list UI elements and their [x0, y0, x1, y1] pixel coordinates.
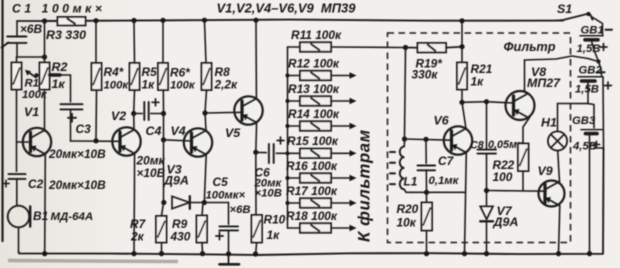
- label GB2 plus: [605, 82, 612, 89]
- label V3: [167, 163, 182, 177]
- transistor V5: [234, 96, 262, 124]
- svg-text:GB1: GB1: [581, 25, 604, 37]
- svg-text:МП27: МП27: [527, 76, 561, 90]
- label GB1 plus: [600, 44, 607, 51]
- svg-text:L1: L1: [404, 175, 418, 189]
- svg-text:R4*: R4*: [104, 65, 125, 79]
- inductor L1: [400, 139, 413, 192]
- label GB1: [581, 25, 604, 37]
- svg-text:К фильтрам: К фильтрам: [355, 129, 374, 242]
- svg-text:×10В: ×10В: [137, 166, 166, 180]
- wire top rail to C1: [17, 20, 45, 22]
- label GB3: [572, 115, 596, 127]
- svg-text:V1: V1: [24, 105, 39, 119]
- label К фильтрам: [355, 129, 374, 242]
- svg-text:1,5В: 1,5В: [577, 43, 601, 55]
- wire V9 emitter down: [559, 206, 560, 254]
- resistor R5: [130, 21, 140, 114]
- wire battery right rail: [594, 77, 604, 148]
- wire V5 emitter down: [253, 123, 258, 215]
- label Фильтр: [504, 39, 556, 54]
- label V5: [225, 126, 241, 140]
- label R4: [104, 65, 130, 92]
- svg-text:R20: R20: [397, 202, 419, 216]
- svg-text:C5: C5: [213, 175, 229, 189]
- wire resistor bank left rail: [285, 47, 289, 228]
- wire V1 base: [17, 141, 31, 143]
- label C6: [254, 166, 283, 200]
- svg-text:2к: 2к: [130, 230, 145, 244]
- wire V4 base: [161, 114, 192, 143]
- label R2: [52, 60, 68, 91]
- wire GB3 to bottom rail: [589, 135, 591, 254]
- svg-text:С1 100мк×: С1 100мк×: [12, 2, 106, 16]
- wire V6 collector: [462, 102, 466, 128]
- svg-text:R13 100к: R13 100к: [288, 82, 340, 96]
- svg-text:R15 100к: R15 100к: [287, 134, 339, 148]
- wire rail to R2 node: [44, 21, 46, 57]
- label C7: [438, 154, 455, 168]
- transistor V6: [444, 126, 472, 154]
- svg-text:100к: 100к: [170, 80, 196, 92]
- svg-text:20мк×10В: 20мк×10В: [48, 147, 106, 161]
- svg-text:С7: С7: [438, 154, 455, 168]
- label V7: [497, 204, 513, 218]
- wire V6 emitter down: [465, 153, 467, 254]
- svg-text:S1: S1: [557, 2, 572, 16]
- transistor V1: [23, 128, 51, 156]
- svg-text:R18 100к: R18 100к: [286, 209, 338, 223]
- svg-text:GB2: GB2: [579, 65, 603, 77]
- label R20: [397, 202, 419, 230]
- label C5 plus: [216, 232, 223, 239]
- label GB2 value: [575, 84, 599, 96]
- svg-text:GB3: GB3: [572, 115, 596, 127]
- svg-text:100мк×: 100мк×: [206, 189, 246, 201]
- wire C8/V7 node to V9 base: [487, 190, 547, 193]
- resistor R7: [156, 203, 167, 254]
- label V2: [111, 109, 126, 123]
- wire GB2 to H1 tap and GB3: [558, 83, 595, 128]
- label C3: [76, 122, 92, 136]
- wire V2 collector: [133, 114, 135, 129]
- wire V8 collector up: [525, 60, 530, 94]
- wire V6 collector node to V8 base: [462, 99, 513, 104]
- svg-text:Д9А: Д9А: [493, 215, 519, 229]
- svg-text:R3 330: R3 330: [46, 28, 86, 42]
- svg-text:100к: 100к: [104, 80, 130, 92]
- svg-text:1к: 1к: [52, 77, 66, 91]
- wire R19 node down to V6 base: [402, 48, 452, 142]
- label R22: [493, 158, 515, 184]
- svg-text:V5: V5: [225, 126, 241, 140]
- resistor R20: [422, 192, 433, 253]
- resistor R14: [288, 107, 357, 131]
- svg-text:20мк×10В: 20мк×10В: [48, 178, 106, 192]
- label C4 value: [136, 154, 166, 181]
- capacitor C5: [219, 203, 238, 254]
- lamp H1: [548, 104, 567, 151]
- resistor R15: [287, 134, 357, 158]
- label C5: [213, 175, 229, 189]
- resistor R1: [12, 57, 22, 142]
- label GB2 minus: [599, 71, 605, 73]
- resistor R18: [286, 209, 357, 233]
- wire V5 collector: [255, 21, 257, 98]
- capacitor C4: [144, 102, 166, 120]
- svg-text:R10: R10: [264, 213, 286, 227]
- label V1: [24, 105, 39, 119]
- capacitor C8: [478, 102, 496, 191]
- resistor R9: [197, 203, 208, 254]
- svg-text:1к: 1к: [142, 78, 156, 92]
- label H1: [541, 116, 557, 130]
- wire V4 collector: [202, 110, 207, 129]
- svg-text:×10В: ×10В: [255, 188, 282, 200]
- node top rail junction dots: [42, 18, 465, 24]
- svg-text:Н1: Н1: [541, 116, 557, 130]
- wire C1/R1/R2 node: [17, 54, 48, 59]
- svg-text:С2: С2: [28, 177, 44, 191]
- label R21: [471, 62, 493, 89]
- label C6 plus: [277, 137, 284, 144]
- transistor V4: [184, 128, 212, 156]
- svg-text:4,5В: 4,5В: [572, 141, 597, 153]
- capacitor C7: [418, 139, 436, 192]
- diode V7: [480, 188, 493, 254]
- capacitor C3: [61, 104, 83, 141]
- resistor R10: [252, 215, 263, 254]
- label C1 voltage: [20, 22, 43, 36]
- wire C4 left node: [131, 111, 142, 116]
- battery GB1: [580, 36, 603, 40]
- label R6: [170, 66, 196, 92]
- label C4: [146, 124, 162, 138]
- label V9: [538, 164, 553, 178]
- resistor R16: [286, 159, 357, 183]
- inductor L1 core dashes: [390, 152, 395, 184]
- svg-text:100: 100: [493, 170, 513, 184]
- label V8 type: [527, 76, 561, 90]
- label C2: [28, 177, 44, 191]
- wire bottom ground rail: [19, 148, 604, 255]
- wire V4 collector to V5 base: [205, 111, 242, 114]
- ground: [220, 254, 240, 264]
- label GB3 plus: [593, 141, 599, 147]
- label V4: [171, 124, 186, 138]
- filter dashed box: [388, 33, 571, 243]
- wire tank bottom: [412, 190, 465, 195]
- label R10: [264, 213, 286, 243]
- resistor R8: [202, 21, 212, 113]
- label GB3 value: [572, 141, 597, 153]
- resistor R19: [403, 43, 462, 52]
- resistor R13: [288, 82, 357, 106]
- label V8: [531, 65, 546, 79]
- battery GB2: [578, 77, 603, 81]
- svg-text:R17 100к: R17 100к: [286, 184, 338, 198]
- capacitor C6: [256, 144, 288, 163]
- svg-text:330к: 330к: [412, 68, 439, 82]
- wire C3 to V2 base: [71, 138, 121, 143]
- wire V1 emitter down: [44, 154, 47, 253]
- resistor R3: [58, 17, 86, 25]
- label B1: [33, 209, 48, 223]
- label R9: [170, 217, 191, 244]
- frame bottom smudge: [8, 261, 178, 262]
- wire V4 emitter down: [204, 155, 206, 203]
- svg-text:R14 100к: R14 100к: [288, 107, 340, 121]
- label R5: [142, 65, 158, 92]
- capacitor C1: [2, 21, 27, 57]
- svg-text:1,5В: 1,5В: [575, 84, 599, 96]
- label V6: [434, 114, 449, 128]
- node bottom rail junction dots: [42, 251, 592, 257]
- label C2 plus: [3, 180, 9, 186]
- resistor R4: [92, 21, 102, 141]
- svg-text:МД-64А: МД-64А: [51, 211, 94, 223]
- wire GB1 to GB2 tap: [592, 41, 602, 76]
- svg-text:R2: R2: [52, 60, 68, 74]
- svg-text:V2: V2: [111, 109, 126, 123]
- label transistor types V1,V2,V4-V6,V9 МП39: [217, 0, 357, 15]
- resistor R6: [158, 21, 168, 114]
- svg-text:1к: 1к: [267, 228, 281, 242]
- svg-text:R12 100к: R12 100к: [288, 56, 340, 70]
- label S1: [557, 2, 572, 16]
- switch S1: [556, 12, 603, 35]
- resistor R22: [518, 144, 529, 191]
- label GB1 minus: [606, 29, 613, 31]
- svg-text:Д9А: Д9А: [163, 174, 189, 188]
- resistor R11: [288, 28, 406, 52]
- label C7 value: [429, 175, 460, 187]
- svg-text:С3: С3: [76, 122, 92, 136]
- svg-text:V6: V6: [434, 114, 449, 128]
- label C3 plus: [68, 114, 76, 122]
- resistor R2: [40, 57, 50, 131]
- svg-text:V9: V9: [538, 164, 553, 178]
- svg-text:V4: V4: [171, 124, 186, 138]
- label C4 plus: [152, 99, 159, 106]
- svg-text:0,1мк: 0,1мк: [429, 175, 460, 187]
- capacitor C2: [9, 142, 26, 206]
- wire R2 to C3: [50, 75, 71, 102]
- wire V9 collector to H1: [558, 150, 560, 182]
- label C8: [470, 139, 523, 152]
- label C2 value: [48, 178, 106, 192]
- label R1: [22, 78, 48, 102]
- svg-text:R1: R1: [25, 78, 39, 90]
- transistor V8: [506, 91, 535, 120]
- transistor V2: [112, 127, 140, 155]
- label C3 value: [48, 147, 106, 161]
- resistor R12: [288, 56, 357, 80]
- label R19: [412, 57, 444, 82]
- wire V8 emitter to R22: [523, 118, 530, 144]
- svg-text:430: 430: [170, 230, 191, 244]
- label R3: [46, 28, 86, 42]
- label V7 type: [493, 215, 519, 229]
- label C5 value: [206, 189, 251, 216]
- label B1 type: [51, 211, 94, 223]
- label V3 type: [163, 174, 189, 188]
- microphone B1: [8, 206, 31, 252]
- svg-text:2,2к: 2,2к: [214, 78, 239, 92]
- svg-text:В1: В1: [33, 209, 48, 223]
- wire top supply rail: [45, 20, 564, 21]
- label R8: [214, 65, 239, 92]
- svg-text:R11 100к: R11 100к: [291, 28, 342, 42]
- svg-text:×6В: ×6В: [20, 22, 43, 36]
- frame left border line: [1, 0, 3, 241]
- resistor R21: [457, 21, 467, 105]
- diode V3: [161, 140, 228, 209]
- svg-text:10к: 10к: [397, 216, 417, 230]
- svg-text:R16 100к: R16 100к: [286, 159, 338, 173]
- label R7: [130, 217, 147, 244]
- wire V2 emitter down: [133, 154, 136, 254]
- label L1: [404, 175, 418, 189]
- label GB2: [579, 65, 603, 77]
- label C1 value: [12, 2, 106, 16]
- svg-text:С4: С4: [146, 124, 162, 138]
- svg-text:×6В: ×6В: [230, 204, 251, 216]
- wire V8 collector to battery tap: [525, 56, 599, 62]
- resistor R17: [286, 184, 357, 208]
- svg-text:R6*: R6*: [170, 66, 191, 80]
- transistor V9: [539, 181, 565, 207]
- svg-text:С8: С8: [470, 140, 484, 152]
- svg-text:Фильтр: Фильтр: [504, 39, 556, 54]
- label GB1 value: [577, 43, 601, 55]
- svg-text:V1,V2,V4–V6,V9 МП39: V1,V2,V4–V6,V9 МП39: [217, 0, 357, 15]
- svg-text:1к: 1к: [471, 75, 485, 89]
- wire R1 wiper arrow: [25, 70, 39, 78]
- battery GB3: [581, 130, 602, 134]
